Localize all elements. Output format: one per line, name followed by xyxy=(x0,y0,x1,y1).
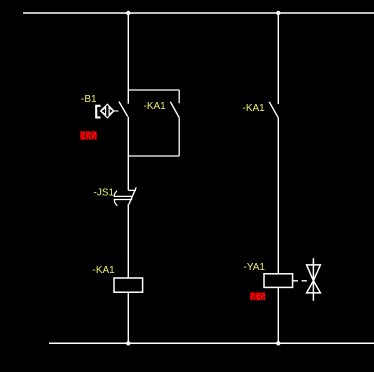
valve symbol stem xyxy=(312,258,314,301)
valve symbol lower triangle xyxy=(307,281,321,293)
contact B1 blade NO xyxy=(119,102,128,117)
wire branch bottom xyxy=(128,155,179,157)
wire left rail below B1 contact xyxy=(127,117,129,191)
wire branch right upper stub xyxy=(178,90,180,103)
wire right rail lower segment xyxy=(277,287,279,343)
wire left rail lower segment xyxy=(127,292,129,343)
svg-text:-KA1: -KA1 xyxy=(144,101,167,112)
node junction top-right xyxy=(276,11,280,15)
wire bottom bus xyxy=(49,342,374,344)
wire left rail between JS1 and coil xyxy=(127,204,129,278)
annotation red text magnetic switch xyxy=(80,131,96,139)
svg-text:-YA1: -YA1 xyxy=(244,262,266,273)
node junction top-left xyxy=(126,11,130,15)
svg-text:-KA1: -KA1 xyxy=(93,265,116,276)
svg-text:-KA1: -KA1 xyxy=(243,103,266,114)
wire dashed actuator link xyxy=(293,280,308,282)
contact KA1 holding blade NO xyxy=(170,102,179,118)
contact JS1 NC time-delay xyxy=(114,187,136,206)
contact KA1 right blade NO xyxy=(269,102,278,118)
wire right rail upper segment xyxy=(277,13,279,104)
valve symbol upper triangle xyxy=(307,265,321,281)
coil YA1 solenoid xyxy=(264,274,293,288)
coil KA1 xyxy=(114,278,143,292)
svg-text:-B1: -B1 xyxy=(81,94,97,105)
wire right rail mid segment xyxy=(277,118,279,274)
node junction bottom-right xyxy=(276,341,280,345)
wire branch top xyxy=(128,89,179,91)
wire branch right lower stub xyxy=(178,118,180,156)
svg-text:-JS1: -JS1 xyxy=(94,188,115,199)
sensor B1 proximity switch body xyxy=(96,104,118,118)
annotation red text solenoid valve xyxy=(250,293,265,301)
wire left rail upper segment xyxy=(127,13,129,104)
node junction bottom-left xyxy=(126,341,130,345)
wire top bus xyxy=(23,12,374,14)
